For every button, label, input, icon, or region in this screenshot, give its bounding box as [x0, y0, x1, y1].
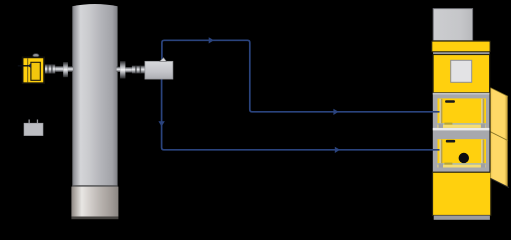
column base shadow [71, 217, 118, 220]
compartment 1 left post [440, 99, 441, 124]
analyzer bottom box [433, 172, 491, 215]
flange (left) [63, 62, 68, 77]
compartment 1 interior [438, 98, 487, 123]
compartment 1 olive tag [444, 123, 452, 126]
wire W2 (transmitter bottom to analyzer compartment 2) [162, 79, 440, 150]
pipe nipple (right) [125, 67, 131, 73]
compartment 2 olive tag [444, 163, 452, 166]
compartment 1 rail [438, 123, 487, 125]
sensor pointer arrowhead [28, 64, 31, 69]
wire W1 arrow A2 [333, 109, 338, 115]
analyzer vent box (gray, top) [433, 9, 472, 41]
transmitter top wedge [160, 58, 167, 62]
compartment 2 left post [440, 140, 441, 164]
sensor housing edge line [27, 58, 28, 82]
compartment separator white band [433, 128, 490, 130]
coupling (right) [132, 66, 145, 74]
pipe stub out of column (right) [117, 67, 121, 72]
junction box terminal 1 [29, 120, 30, 124]
coupling ring 1 [47, 64, 48, 73]
compartment frame top highlight [433, 93, 490, 95]
compartment 2 right post [481, 140, 482, 164]
compartment 2 fan circle [459, 153, 469, 163]
coupling right ring 1 [135, 66, 137, 74]
sensor coupling (left) [44, 64, 56, 73]
compartment 1 shelf [438, 125, 487, 128]
sensor pointer leader line [18, 65, 29, 67]
flange (right) [120, 61, 125, 78]
compartment 1 label [445, 100, 455, 103]
column base [71, 187, 118, 217]
sensor knob (top) [33, 54, 39, 58]
junction box terminal 2 [37, 120, 38, 124]
analyzer top cap (yellow) [432, 41, 491, 52]
wire W2 arrow A4 [335, 147, 340, 153]
compartment 2 label [446, 140, 455, 143]
compartment 2 shelf [438, 165, 487, 168]
compartment 1 right post [481, 99, 482, 124]
compartment 2 interior [438, 139, 487, 163]
coupling right ring 2 [140, 66, 142, 74]
wire W1 arrow A1 [209, 37, 214, 43]
cabinet door bottom edge [491, 178, 510, 187]
analyzer plinth [434, 216, 490, 220]
column (vertical tank) [72, 4, 117, 186]
analyzer compartment frame (gray) [433, 93, 490, 172]
wire W2 arrow A3 (down) [158, 121, 164, 126]
sensor housing (yellow) [23, 57, 44, 83]
coupling ring 2 [51, 64, 52, 73]
cabinet door seam [491, 132, 509, 141]
junction box [24, 123, 43, 135]
compartment 2 post feet [438, 163, 443, 167]
cap / body gray divider [433, 52, 489, 54]
pipe stub into column (left) [68, 66, 73, 72]
compartment 1 post feet [438, 124, 443, 128]
column bottom seam [72, 185, 117, 186]
analyzer upper body (yellow with window) [433, 55, 490, 93]
transmitter box [145, 61, 173, 79]
sensor inner door [31, 62, 40, 80]
analyzer window [451, 60, 472, 82]
cabinet door (open) [491, 88, 509, 187]
pipe nipple (left) [55, 66, 63, 72]
wire W1 (transmitter top to analyzer compartment 1) [162, 40, 440, 112]
cabinet door top edge [491, 88, 509, 97]
compartment 2 rail [438, 163, 487, 165]
